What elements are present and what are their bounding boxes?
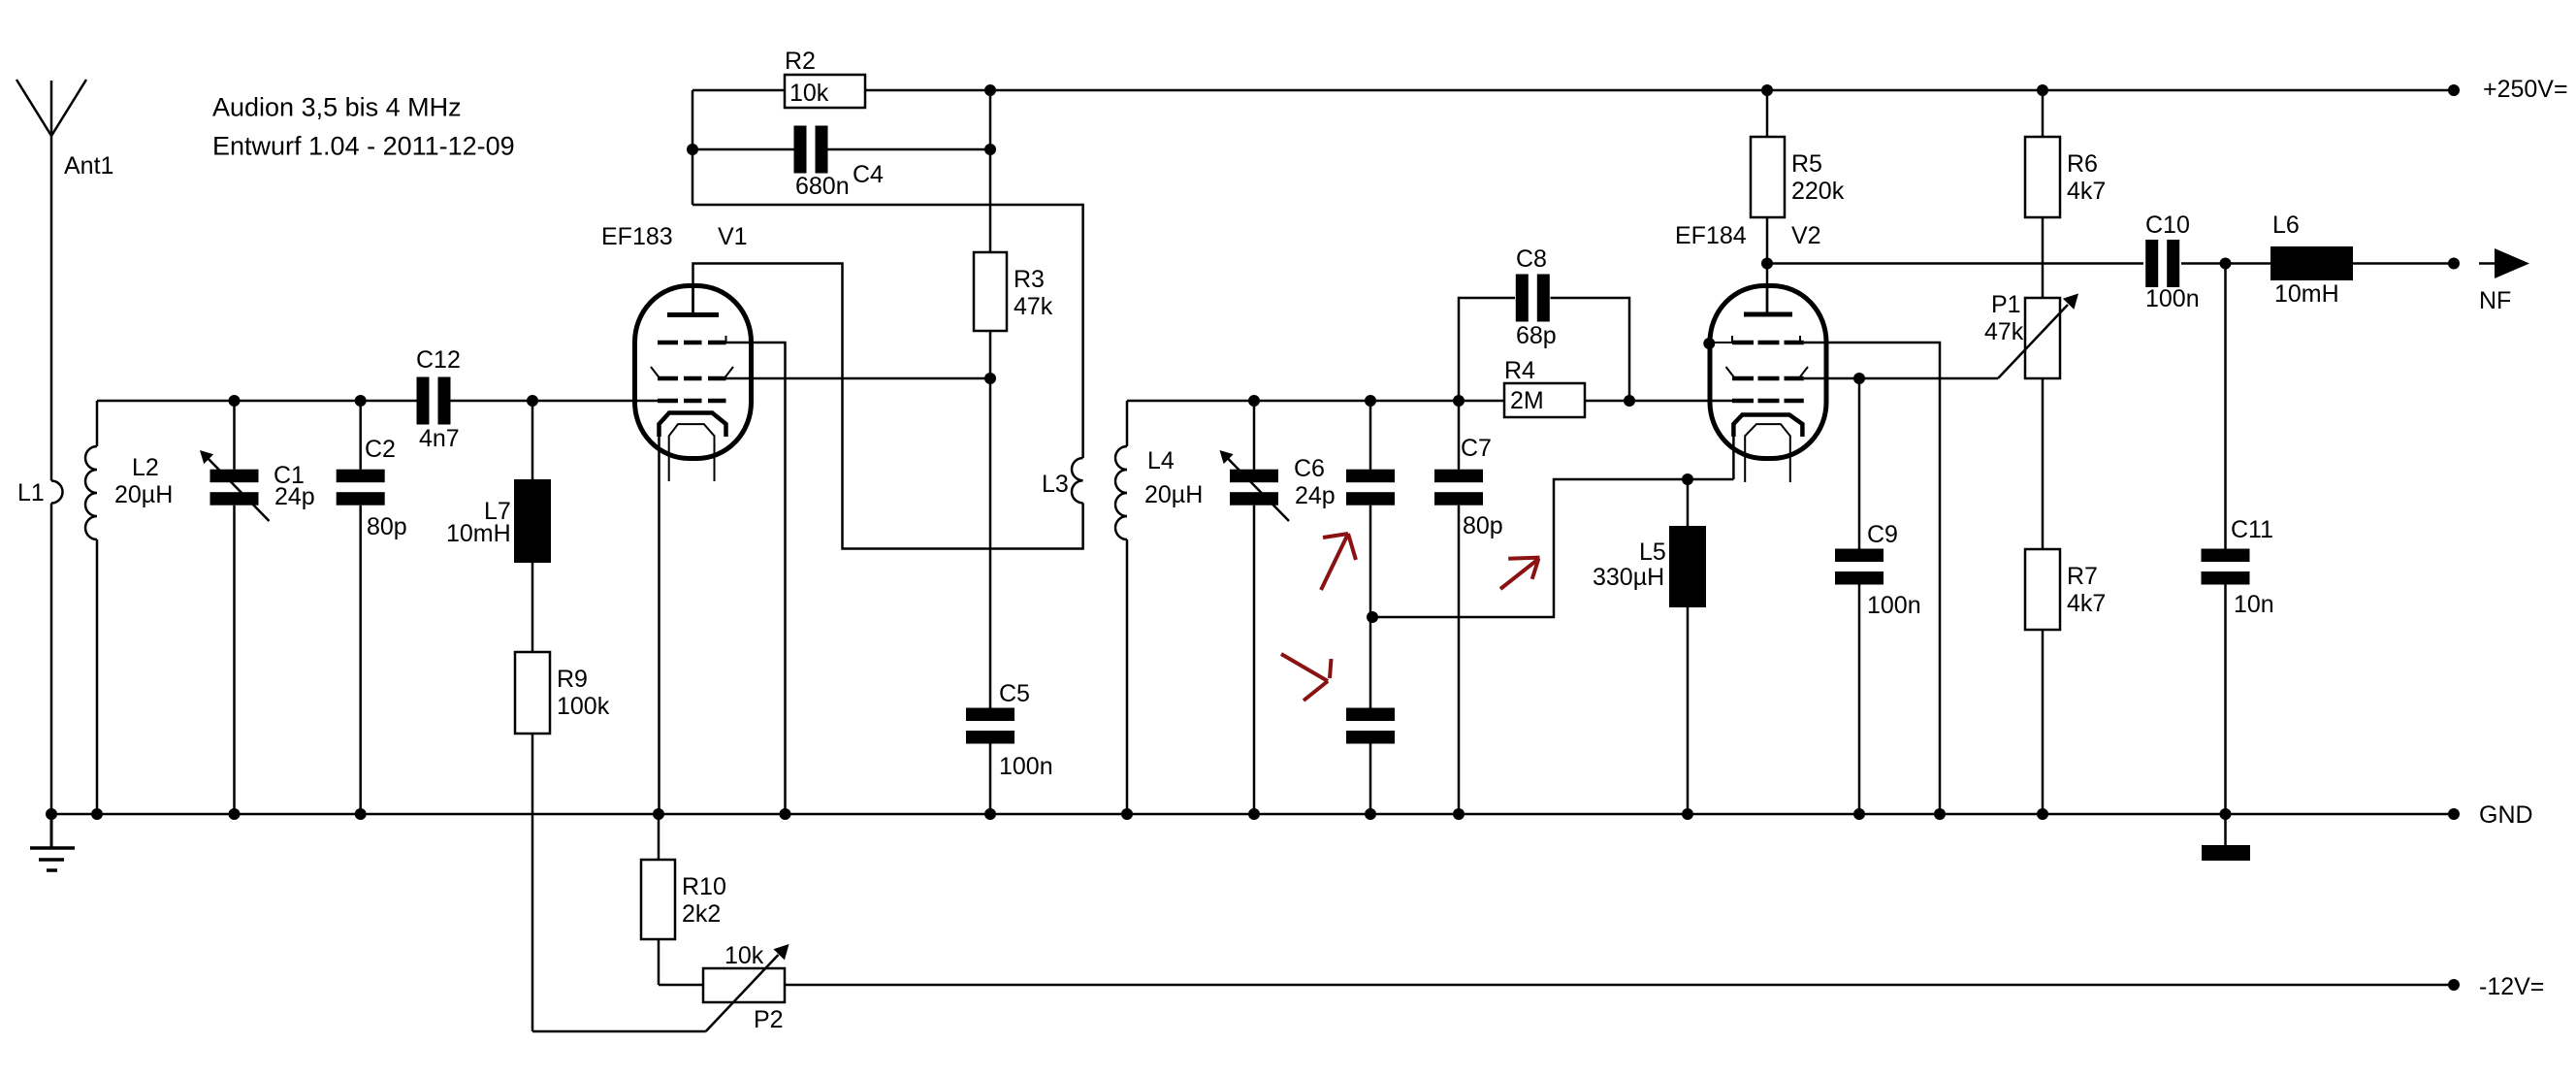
svg-text:C7: C7	[1461, 435, 1492, 462]
wire V2 cathode lead	[1732, 437, 1735, 479]
svg-text:L3: L3	[1042, 471, 1069, 498]
resistor R4	[1504, 383, 1585, 417]
potentiometer P1 wiper	[1998, 305, 2068, 378]
wire R5 top	[1766, 90, 1769, 137]
junction dot regen tap	[1367, 611, 1378, 623]
svg-text:P1: P1	[1991, 291, 2021, 318]
inductor L2	[85, 446, 97, 539]
junction dot V2 g2 / C9	[1853, 373, 1865, 384]
capacitor C6 arrow	[1227, 457, 1290, 521]
capacitor C1	[210, 470, 259, 483]
capacitor C6c	[1346, 708, 1395, 722]
wire V2 grid rail	[1127, 400, 1504, 403]
wire input rail to C12	[97, 400, 418, 403]
wire R3 to C5 to GND column	[989, 331, 992, 708]
svg-text:24p: 24p	[274, 483, 315, 510]
tube V1 anode lead	[692, 285, 694, 312]
wire L2 top	[96, 401, 99, 446]
svg-text:4k7: 4k7	[2067, 590, 2106, 617]
svg-text:4k7: 4k7	[2067, 178, 2106, 205]
tube V2 anode lead	[1766, 285, 1769, 312]
tube V2 cathode	[1733, 415, 1802, 438]
svg-text:Audion 3,5 bis 4 MHz: Audion 3,5 bis 4 MHz	[212, 93, 462, 122]
tube V2 g1 grid	[1732, 399, 1754, 404]
annotation arrow 1	[1321, 534, 1348, 590]
inductor L3	[1072, 458, 1083, 503]
wire regen tap to V2 cathode	[1372, 479, 1733, 617]
tube V1 cathode	[660, 413, 726, 438]
wire C12 to V1 g1	[450, 400, 659, 403]
svg-text:100n: 100n	[999, 753, 1053, 780]
potentiometer P2 wiper	[706, 955, 779, 1031]
svg-text:C11: C11	[2231, 516, 2273, 543]
svg-text:68p: 68p	[1516, 322, 1557, 349]
svg-text:4n7: 4n7	[419, 425, 460, 452]
tube V2 heater	[1745, 424, 1790, 482]
svg-text:-12V=: -12V=	[2479, 973, 2544, 1000]
junction dot R3 bottom / V1 g2	[984, 373, 996, 384]
tube V2 g3 internal connection dot	[1703, 338, 1715, 349]
capacitor C9	[1835, 549, 1884, 563]
wire R5 to V2 anode	[1766, 217, 1769, 312]
tube V1 EF183 envelope	[635, 286, 752, 459]
svg-text:47k: 47k	[1984, 318, 2024, 345]
junction dots V2 grid rail	[1248, 395, 1260, 407]
svg-text:L4: L4	[1147, 447, 1175, 474]
svg-text:R5: R5	[1791, 150, 1822, 178]
svg-text:100n: 100n	[1867, 592, 1921, 619]
capacitor C1 arrow	[207, 457, 270, 521]
tube V1 g2 grid	[658, 376, 678, 381]
wire +250V rail	[692, 89, 2454, 92]
resistor R9	[515, 652, 550, 734]
wire L4 bottom to GND	[1126, 539, 1129, 814]
inductor L5	[1669, 526, 1706, 607]
svg-text:100n: 100n	[2145, 285, 2200, 312]
potentiometer P1	[2025, 298, 2060, 378]
svg-text:R4: R4	[1504, 357, 1535, 384]
wire V2 g3 to GND	[1709, 342, 1732, 343]
resistor R6	[2025, 137, 2060, 217]
annotation arrow 2	[1281, 654, 1328, 681]
wire L1 to GND	[50, 504, 53, 815]
inductor L4	[1115, 446, 1127, 539]
wire -12V rail	[785, 984, 2454, 987]
svg-text:C6: C6	[1294, 455, 1325, 482]
wire R2/C4 left column node	[692, 90, 694, 205]
svg-text:R7: R7	[2067, 563, 2098, 590]
ground symbol	[50, 814, 53, 848]
tube V1 heater	[669, 424, 715, 481]
svg-text:220k: 220k	[1791, 178, 1845, 205]
junction dots V1 grid rail	[229, 395, 241, 407]
svg-text:Entwurf 1.04 - 2011-12-09: Entwurf 1.04 - 2011-12-09	[212, 132, 515, 161]
svg-text:R6: R6	[2067, 150, 2098, 178]
svg-text:10k: 10k	[789, 80, 829, 107]
svg-text:+250V=: +250V=	[2483, 76, 2568, 103]
tube V2 g2 grid	[1732, 376, 1754, 381]
antenna Ant1	[50, 81, 53, 481]
wire C6 column	[1253, 401, 1256, 470]
svg-text:EF183: EF183	[601, 223, 673, 250]
annotation arrow 3	[1500, 560, 1537, 589]
resistor R5	[1751, 137, 1785, 217]
wire node A to L3 top	[692, 205, 1083, 458]
svg-text:C4: C4	[853, 161, 884, 188]
resistor R2	[785, 75, 865, 108]
svg-text:24p: 24p	[1295, 482, 1336, 509]
svg-text:C10: C10	[2145, 212, 2190, 239]
svg-text:C5: C5	[999, 680, 1030, 707]
wire C9 column	[1858, 378, 1861, 549]
tube V1 g1 grid	[658, 399, 678, 404]
wire L2 bottom to GND	[96, 539, 99, 814]
svg-text:20µH: 20µH	[1144, 481, 1203, 508]
svg-text:V1: V1	[718, 223, 748, 250]
junction dots +250V rail	[984, 84, 996, 96]
capacitor C10	[2145, 240, 2158, 287]
wire C11 column	[2224, 264, 2227, 549]
tube V1 g3 grid	[658, 341, 678, 345]
svg-text:80p: 80p	[1463, 512, 1503, 539]
potentiometer P2	[703, 968, 785, 1002]
capacitor C5	[966, 708, 1014, 722]
capacitor C6b	[1346, 470, 1395, 483]
junction dot NF	[2448, 258, 2460, 270]
wire V2 anode to NF	[1767, 262, 2143, 265]
svg-text:80p: 80p	[367, 513, 407, 540]
capacitor C7	[1434, 470, 1483, 483]
svg-text:10mH: 10mH	[446, 520, 511, 547]
wire C1 column	[233, 401, 236, 470]
svg-text:20µH: 20µH	[114, 481, 173, 508]
svg-text:P2: P2	[754, 1006, 784, 1033]
wire +250V to R3 column	[989, 90, 992, 252]
wire V1 g2 to R3 bottom	[726, 377, 991, 380]
svg-text:C2: C2	[365, 436, 396, 463]
svg-text:NF: NF	[2479, 287, 2511, 314]
GND terminal bar	[2202, 845, 2250, 861]
svg-text:EF184: EF184	[1675, 222, 1747, 249]
svg-text:L6: L6	[2272, 212, 2300, 239]
capacitor C6	[1230, 470, 1278, 483]
svg-text:Ant1: Ant1	[64, 152, 113, 179]
tube V2 EF184 envelope	[1710, 286, 1826, 459]
wire C4 branch	[692, 148, 794, 151]
resistor R7	[2025, 549, 2060, 630]
wire GND rail	[51, 813, 2454, 816]
svg-text:GND: GND	[2479, 801, 2533, 829]
junction dot V2 anode	[1761, 258, 1773, 270]
inductor L6	[2270, 246, 2353, 280]
output NF arrow	[2479, 262, 2496, 265]
svg-text:V2: V2	[1791, 222, 1821, 249]
svg-text:10n: 10n	[2234, 591, 2274, 618]
wire C8 branch	[1459, 298, 1515, 401]
capacitor C2	[337, 470, 385, 483]
svg-text:10k: 10k	[724, 942, 764, 969]
capacitor C8	[1516, 275, 1529, 322]
svg-text:C9: C9	[1867, 521, 1898, 548]
wire L5 column	[1687, 479, 1690, 526]
svg-text:680n: 680n	[795, 173, 850, 200]
wire C6b column	[1369, 401, 1372, 470]
svg-text:100k: 100k	[557, 693, 610, 720]
svg-text:L2: L2	[132, 454, 159, 481]
wire L3 bottom to V1 anode	[693, 264, 1083, 549]
junction dot L5 top	[1682, 473, 1693, 485]
tube V2 anode plate	[1744, 312, 1792, 317]
svg-text:10mH: 10mH	[2274, 280, 2339, 308]
wire C7 column	[1458, 401, 1461, 470]
capacitor C12	[417, 377, 430, 425]
svg-text:330µH: 330µH	[1593, 564, 1664, 591]
wire R9 bottom to P2 wiper	[532, 1030, 706, 1033]
svg-text:R2: R2	[785, 48, 816, 75]
wire L4 column top	[1126, 401, 1129, 446]
resistor R3	[974, 252, 1007, 331]
svg-text:2M: 2M	[1510, 387, 1544, 414]
wire V1 g3 to GND	[726, 343, 786, 814]
svg-text:C12: C12	[416, 346, 461, 374]
tube V1 anode plate	[667, 312, 719, 317]
resistor R10	[641, 860, 675, 939]
svg-text:C8: C8	[1516, 245, 1547, 273]
capacitor C11	[2202, 549, 2250, 563]
junction dots GND rail	[46, 808, 57, 820]
wire R6 P1 R7 column	[2042, 90, 2045, 137]
svg-text:L1: L1	[17, 479, 45, 506]
wire R10 column	[658, 814, 660, 860]
wire V2 g2 to P1 wiper	[1804, 377, 1998, 380]
junction dot C11 top	[2220, 258, 2232, 270]
svg-text:R3: R3	[1014, 266, 1045, 293]
svg-text:L5: L5	[1639, 538, 1666, 566]
svg-text:R9: R9	[557, 666, 588, 693]
svg-text:R10: R10	[682, 873, 726, 900]
wire L7 R9 column	[531, 401, 534, 479]
tube V2 g3 grid	[1732, 341, 1754, 345]
svg-text:2k2: 2k2	[682, 900, 721, 928]
wire V1 cathode to GND	[658, 437, 660, 814]
inductor L1	[51, 481, 63, 504]
junction dots C4 branch	[687, 144, 698, 155]
wire C2 column	[359, 401, 362, 470]
inductor L7	[514, 479, 551, 563]
svg-text:47k: 47k	[1014, 293, 1053, 320]
junction dot -12V end	[2448, 979, 2460, 991]
capacitor C4	[794, 126, 807, 174]
